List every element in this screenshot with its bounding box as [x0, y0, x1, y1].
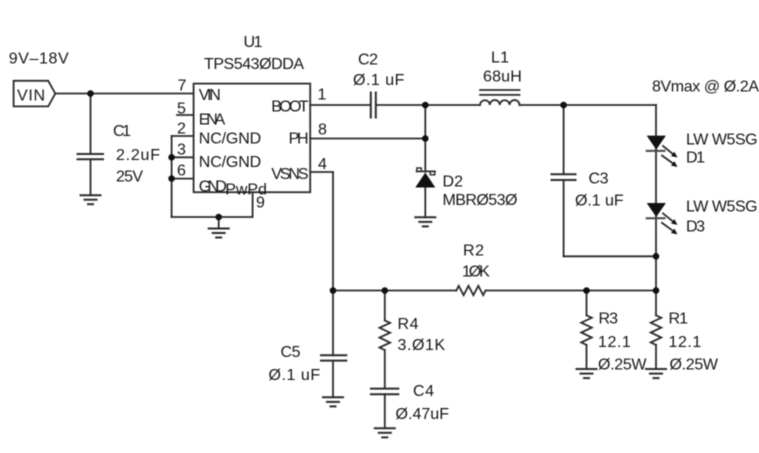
svg-text:12.1: 12.1 — [669, 334, 702, 351]
svg-text:NC/GND: NC/GND — [199, 154, 261, 171]
svg-text:7: 7 — [178, 78, 187, 95]
svg-text:PwPd: PwPd — [225, 182, 267, 199]
svg-text:TPS543ØDDA: TPS543ØDDA — [204, 56, 304, 73]
svg-text:C5: C5 — [281, 344, 301, 361]
svg-text:LW W5SG: LW W5SG — [686, 199, 758, 216]
svg-text:Ø.25W: Ø.25W — [670, 357, 719, 374]
svg-text:9V–18V: 9V–18V — [9, 51, 69, 68]
svg-text:6: 6 — [177, 163, 186, 180]
svg-text:BOOT: BOOT — [271, 99, 309, 116]
svg-text:25V: 25V — [116, 169, 143, 186]
svg-text:12.1: 12.1 — [598, 334, 631, 351]
svg-text:C2: C2 — [358, 52, 378, 69]
svg-text:NC/GND: NC/GND — [199, 131, 261, 148]
svg-text:C1: C1 — [113, 123, 131, 140]
svg-text:GND: GND — [199, 179, 227, 196]
svg-text:R2: R2 — [463, 243, 484, 260]
svg-text:2.2uF: 2.2uF — [116, 147, 160, 164]
svg-text:68uH: 68uH — [483, 69, 522, 86]
svg-text:D2: D2 — [443, 174, 464, 191]
svg-text:VIN: VIN — [199, 87, 221, 104]
svg-text:4: 4 — [318, 156, 327, 173]
svg-text:VSNS: VSNS — [271, 166, 308, 183]
svg-text:Ø.25W: Ø.25W — [598, 357, 647, 374]
svg-text:1: 1 — [318, 87, 327, 104]
svg-text:C3: C3 — [589, 171, 609, 188]
svg-text:8: 8 — [318, 122, 327, 139]
svg-text:MBRØ53Ø: MBRØ53Ø — [443, 192, 518, 209]
svg-text:LW W5SG: LW W5SG — [686, 132, 758, 149]
svg-text:L1: L1 — [491, 50, 509, 67]
svg-text:1ØK: 1ØK — [462, 264, 490, 281]
svg-text:R3: R3 — [599, 311, 619, 328]
svg-text:D3: D3 — [686, 219, 705, 236]
svg-text:5: 5 — [177, 101, 186, 118]
svg-text:U1: U1 — [244, 34, 263, 51]
svg-text:ENA: ENA — [199, 111, 226, 128]
svg-text:R1: R1 — [669, 311, 689, 328]
svg-text:D1: D1 — [686, 150, 705, 167]
svg-text:8Vmax @ Ø.2A: 8Vmax @ Ø.2A — [652, 79, 759, 96]
svg-text:Ø.47uF: Ø.47uF — [396, 406, 450, 423]
svg-text:2: 2 — [177, 121, 186, 138]
svg-text:VIN: VIN — [17, 88, 45, 105]
svg-text:PH: PH — [289, 131, 309, 148]
svg-text:C4: C4 — [413, 383, 434, 400]
svg-text:3.Ø1K: 3.Ø1K — [398, 337, 446, 354]
svg-text:3: 3 — [177, 142, 186, 159]
svg-text:Ø.1 uF: Ø.1 uF — [353, 72, 405, 89]
svg-text:Ø.1 uF: Ø.1 uF — [269, 367, 321, 384]
svg-text:Ø.1 uF: Ø.1 uF — [575, 193, 624, 210]
svg-text:R4: R4 — [398, 316, 419, 333]
